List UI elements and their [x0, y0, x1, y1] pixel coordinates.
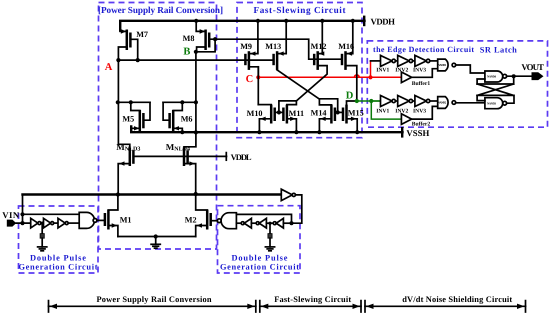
box: Double Pulse Generation Circuit (right)	[218, 206, 301, 273]
double pulse 2: bypass wire	[236, 214, 291, 223]
svg-text:M5: M5	[122, 115, 134, 124]
double pulse 1: delay capacitor	[40, 222, 44, 247]
transistor M6	[163, 102, 192, 132]
phase inverter for M2 path	[281, 189, 302, 223]
svg-text:M8: M8	[183, 34, 195, 43]
transistor M10	[247, 105, 279, 133]
transistor M1	[105, 195, 132, 237]
svg-text:M12: M12	[311, 42, 327, 51]
double pulse 1: inverter chain INV c	[58, 218, 79, 228]
svg-text:VOUT: VOUT	[521, 62, 544, 72]
transistor M14	[311, 99, 340, 132]
bottom arrows: Power Supply Rail Conversion	[49, 295, 256, 312]
SR latch NAND3	[485, 71, 507, 82]
box: Power Supply Rail Conversion	[98, 3, 223, 250]
svg-text:M13: M13	[265, 42, 281, 51]
svg-text:dV/dt Noise Shielding Circuit: dV/dt Noise Shielding Circuit	[402, 295, 512, 304]
edge detection lower INV2	[395, 96, 415, 115]
svg-text:Double Pulse: Double Pulse	[232, 253, 288, 262]
double pulse 2: inverter chain INV b	[251, 218, 266, 228]
svg-text:Generation Circuit: Generation Circuit	[19, 263, 98, 272]
edge detection upper INV3	[413, 55, 438, 73]
svg-text:Buffer2: Buffer2	[412, 121, 431, 127]
VSSH rail	[131, 127, 429, 139]
svg-text:Fast-Slewing Circuit: Fast-Slewing Circuit	[254, 5, 347, 16]
svg-text:VSSH: VSSH	[406, 128, 429, 138]
node D column (M16/M15 drains)	[346, 66, 357, 101]
diode M5 row from A	[116, 100, 150, 104]
NAND1	[438, 59, 456, 71]
cross-coupling diagonal M12 drain to M10/M11 gates	[279, 66, 327, 113]
VOUT port	[521, 62, 544, 80]
svg-text:M10: M10	[247, 109, 263, 118]
svg-text:M7: M7	[136, 30, 148, 39]
ground (left cap)	[38, 247, 47, 251]
NAND2	[438, 97, 456, 109]
transistor M2	[185, 194, 211, 237]
VSSH rail junction dots	[180, 130, 198, 134]
transistor MNLD4	[166, 132, 196, 193]
edge detection lower INV3	[413, 96, 438, 115]
svg-text:INV3: INV3	[413, 108, 426, 114]
svg-text:M16: M16	[338, 42, 354, 51]
node B column	[195, 52, 197, 133]
box: Fast-Slewing Circuit	[237, 3, 362, 138]
double pulse 2: inverter chain INV c (leftmost, points left)	[236, 218, 251, 228]
svg-text:M9: M9	[240, 42, 252, 51]
svg-text:Double Pulse: Double Pulse	[30, 253, 86, 262]
transistor M11	[277, 101, 304, 132]
double pulse 2: NAND gate (mirrored)	[211, 213, 237, 229]
node A column	[117, 60, 119, 144]
svg-text:M2: M2	[185, 216, 197, 225]
svg-text:A: A	[105, 62, 113, 73]
VDDL wire and label	[133, 152, 252, 162]
svg-text:INV1: INV1	[376, 67, 389, 73]
svg-text:INV3: INV3	[413, 67, 426, 73]
VIN input row	[23, 192, 282, 197]
VDDH rail	[120, 17, 395, 31]
double pulse 1: NAND gate	[79, 212, 105, 228]
svg-text:NAND1: NAND1	[438, 63, 447, 67]
svg-text:M15: M15	[348, 109, 364, 118]
transistor M12	[311, 19, 327, 70]
node C column (M9/M10 drains)	[257, 67, 259, 105]
box: Double Pulse Generation Circuit (left)	[19, 206, 99, 273]
svg-text:M11: M11	[289, 109, 304, 118]
svg-text:the Edge Detection Circuit: the Edge Detection Circuit	[373, 45, 474, 54]
svg-text:VIN: VIN	[2, 210, 20, 220]
svg-text:M14: M14	[311, 109, 327, 118]
transistor MNLD3	[116, 142, 140, 195]
svg-text:NAND4: NAND4	[487, 75, 497, 79]
svg-text:[Power Supply Rail Conversion]: [Power Supply Rail Conversion]	[98, 5, 223, 15]
double pulse 1: inverter chain INV a	[31, 218, 44, 228]
double pulse 2: inverter chain INV a	[266, 218, 293, 228]
diode M6 row from B	[163, 100, 198, 104]
Buffer1	[371, 69, 438, 87]
edge detection lower: input stub from D	[371, 100, 380, 102]
transistor M5	[122, 102, 150, 132]
SR latch cross-coupling	[477, 74, 531, 103]
edge detection upper: input stub from C	[371, 61, 381, 77]
svg-text:NAND3: NAND3	[487, 102, 497, 106]
Buffer2	[371, 101, 437, 127]
svg-text:Power Supply Rail Conversion: Power Supply Rail Conversion	[97, 295, 212, 304]
edge detection upper INV2	[395, 55, 415, 73]
svg-text:VDDH: VDDH	[371, 17, 396, 27]
svg-text:INV1: INV1	[376, 108, 389, 114]
svg-text:D: D	[346, 91, 354, 102]
svg-text:M6: M6	[181, 115, 193, 124]
transistor M8	[183, 19, 210, 52]
VIN port	[2, 195, 31, 227]
VSSH rail dots (fast-slewing sources)	[257, 130, 359, 134]
transistor M15	[338, 101, 364, 132]
node B rail (M8 gate to M12/M16 gates)	[183, 37, 341, 59]
edge detection upper INV1	[376, 55, 398, 73]
svg-text:VDDL: VDDL	[231, 152, 252, 162]
svg-text:M1: M1	[120, 216, 132, 225]
bottom arrows: dV/dt Noise Shielding Circuit	[361, 295, 526, 312]
SR latch NAND4	[485, 98, 507, 109]
node D row (green)	[346, 91, 381, 104]
wire NAND2 to NAND4	[456, 102, 485, 104]
transistor M9	[240, 19, 260, 78]
svg-text:Buffer1: Buffer1	[412, 81, 431, 87]
node A row	[105, 58, 274, 73]
node C row (red)	[246, 74, 402, 85]
svg-text:C: C	[246, 74, 254, 85]
edge detection lower INV1	[376, 96, 398, 115]
ground (right cap)	[265, 247, 274, 251]
transistor M13	[265, 19, 288, 70]
M1/M2 source rail and ground	[118, 234, 196, 244]
transistor M7	[118, 21, 148, 60]
double pulse 1: bypass wire	[23, 213, 80, 215]
svg-text:Generation Circuit: Generation Circuit	[220, 263, 299, 272]
cross-coupling diagonal M13 drain to M14/M15 gates	[277, 70, 338, 113]
double pulse 1: inverter chain INV b	[44, 218, 59, 228]
transistor M16	[338, 19, 355, 70]
wire NAND1 to NAND3	[456, 65, 485, 73]
svg-text:SR Latch: SR Latch	[480, 45, 517, 54]
svg-text:B: B	[183, 47, 190, 58]
svg-text:NAND2: NAND2	[438, 101, 447, 105]
box: Edge Detection + SR Latch	[367, 41, 547, 127]
double pulse 2: delay capacitor	[268, 222, 272, 247]
ground (M1/M2 sources)	[151, 244, 160, 248]
svg-text:Fast-Slewing Circuit: Fast-Slewing Circuit	[274, 295, 351, 304]
bottom arrows: Fast-Slewing Circuit	[256, 295, 361, 312]
